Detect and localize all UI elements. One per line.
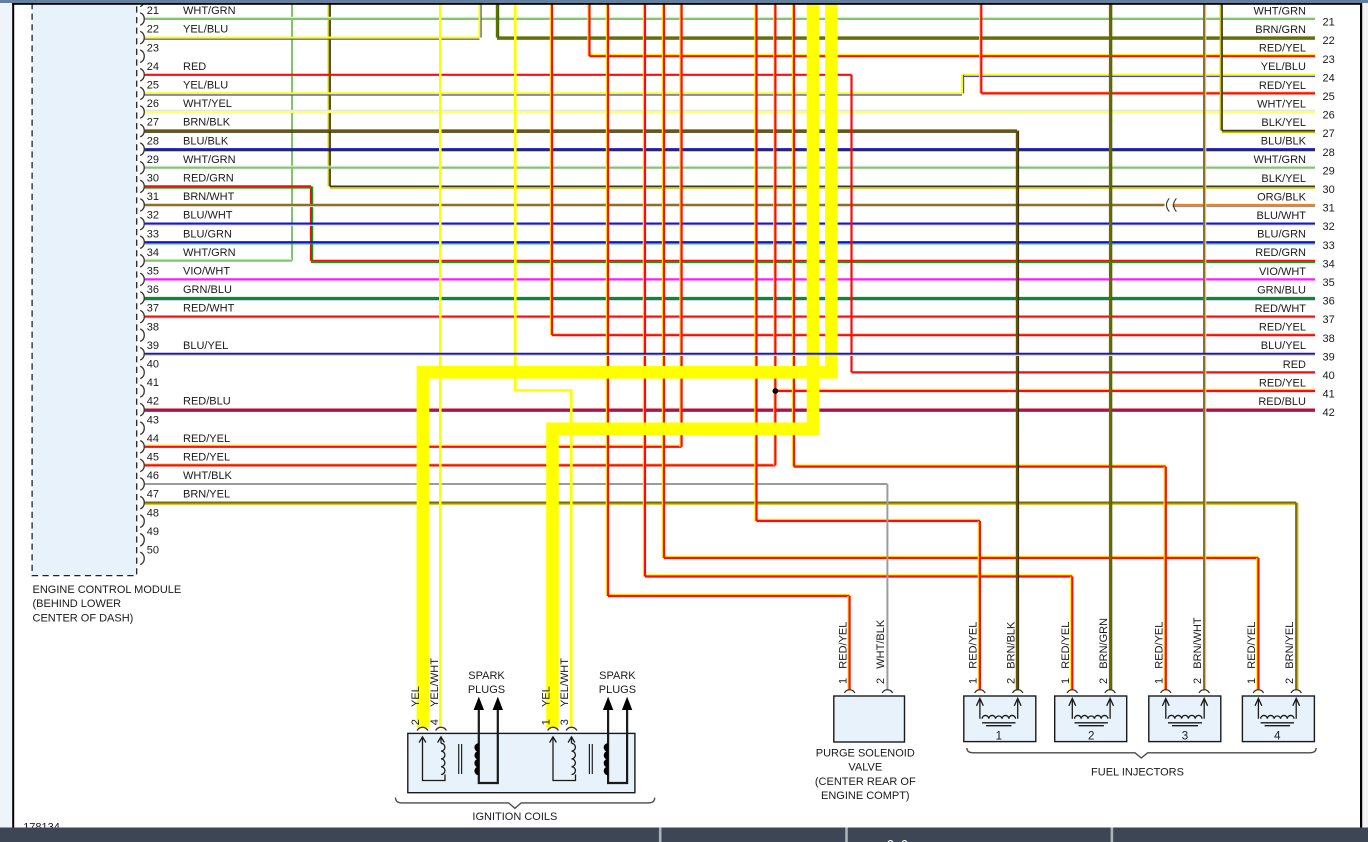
svg-text:RED/WHT: RED/WHT [1255,303,1307,315]
wire BRN/GRN (right row 22) [497,38,1315,40]
left gutter [0,0,12,842]
wire drop RED/YEL (purge valve pin 1) [848,596,850,690]
wire 25 YEL/BLU (ECM pin 25 to jog) [145,93,962,95]
svg-text:26: 26 [1323,110,1335,122]
svg-text:(CENTER REAR OF: (CENTER REAR OF [815,776,916,788]
svg-text:RED/YEL: RED/YEL [1259,80,1306,92]
purge valve pin 1 arc [844,690,854,693]
svg-text:ENGINE COMPT): ENGINE COMPT) [821,790,910,802]
svg-text:PLUGS: PLUGS [468,684,505,696]
ECM pin 23 connector arc [140,50,144,63]
ignition coil pin 1 arc [548,727,559,730]
fuel injector 1 coil symbol [977,698,1022,725]
wire riser RED/YEL (pin 44 up to top) [680,4,682,447]
svg-text:26: 26 [147,98,159,110]
svg-text:4 YEL/WHT: 4 YEL/WHT [429,658,441,726]
svg-text:WHT/GRN: WHT/GRN [1253,154,1306,166]
svg-text:1 RED/YEL: 1 RED/YEL [837,622,849,684]
diagram right border [1360,3,1362,828]
svg-text:2 BRN/YEL: 2 BRN/YEL [1284,622,1296,684]
svg-text:44: 44 [147,433,159,445]
svg-text:39: 39 [1323,351,1335,363]
svg-text:6: 6 [887,837,895,842]
ECM pin 22 connector arc [140,31,144,44]
wire 26 WHT/YEL [145,110,1315,112]
svg-text:36: 36 [1323,296,1335,308]
fuel injector 3 box [1149,696,1221,742]
svg-text:38: 38 [147,321,159,333]
purge solenoid valve caption [815,748,916,802]
wire 39 BLU/YEL (drawn over thick yellow) [145,354,1315,356]
ECM pin 37 connector arc [140,310,144,323]
ignition coil pin 2 arc [417,727,428,730]
svg-text:VIO/WHT: VIO/WHT [1259,266,1306,278]
wire 37 RED/WHT [145,317,1315,319]
svg-text:4: 4 [1274,731,1281,743]
fuel injector 2 pin 1 arc [1067,690,1077,693]
ECM pin 25 connector arc [140,87,144,100]
svg-text:(BEHIND LOWER: (BEHIND LOWER [33,598,122,610]
svg-text:2 YEL: 2 YEL [410,686,422,725]
ECM pin 29 connector arc [140,162,144,175]
spark plugs label 1 [468,670,506,696]
svg-text:WHT/YEL: WHT/YEL [1257,98,1306,110]
ECM pin 32 connector arc [140,217,144,230]
wire riser WHT/GRN (pin 34 up to top) [291,4,293,261]
svg-text:31: 31 [147,191,159,203]
svg-text:1 RED/YEL: 1 RED/YEL [1060,622,1072,684]
status bar separator 3 [1111,828,1114,842]
ECM pin 48 connector arc [140,515,144,528]
ECM pin 39 connector arc [140,348,144,361]
fuel injector 3 pin 1 arc [1161,690,1171,693]
ECM pin 26 connector arc [140,106,144,119]
ECM pin 21 connector arc [140,13,144,26]
svg-text:28: 28 [147,135,159,147]
wire riser RED/YEL (top down to injector 4 feed) [662,4,664,558]
svg-text:31: 31 [1323,203,1335,215]
fuel injector 2 coil symbol [1069,698,1114,725]
svg-text:BRN/BLK: BRN/BLK [183,117,231,129]
svg-text:28: 28 [1323,147,1335,159]
svg-text:42: 42 [1323,407,1335,419]
svg-text:BLU/WHT: BLU/WHT [183,210,233,222]
svg-text:29: 29 [1323,165,1335,177]
svg-text:3: 3 [1182,731,1188,743]
svg-text:3 YEL/WHT: 3 YEL/WHT [559,658,571,726]
svg-text:BLU/BLK: BLU/BLK [1261,136,1307,148]
svg-text:35: 35 [1323,277,1335,289]
wire ORG/BLK (right row 31) [1173,205,1316,207]
ECM pin 42 connector arc [140,403,144,416]
svg-text:41: 41 [1323,389,1335,401]
svg-text:24: 24 [147,61,159,73]
svg-text:27: 27 [147,117,159,129]
diagram left border [12,3,14,828]
wire drop BRN/WHT (top down to injector 3 pin 2) [1204,4,1206,690]
wire BLK/YEL (right row 30) [330,186,1315,188]
svg-text:BRN/WHT: BRN/WHT [183,191,235,203]
svg-text:RED/WHT: RED/WHT [183,303,235,315]
wire riser RED/YEL (top down to row 23) [588,4,590,56]
svg-text:GRN/BLU: GRN/BLU [1257,284,1306,296]
fuel injector 4 pin 1 arc [1253,690,1263,693]
wire RED (right row 40) [852,371,1316,373]
wire RED/YEL feed to injector 3 pin 1 [794,465,1166,467]
fuel injector 4 coil symbol [1255,698,1300,725]
svg-text:RED: RED [1283,359,1306,371]
wire drop RED/YEL (injector 2 pin 1) [1071,577,1073,691]
wire drop RED/GRN (row 30 down to row 34) [311,186,313,260]
wire riser BLK/YEL (top down to row 30) [328,4,330,186]
fuel injector 1 box [964,696,1036,742]
status bar separator 2 [845,828,848,842]
svg-text:SPARK: SPARK [468,670,505,682]
svg-text:1 RED/YEL: 1 RED/YEL [1246,622,1258,684]
thin YEL/WHT wire to ignition coil pin 4 [439,4,442,727]
wire RED/GRN (right row 34) [311,261,1315,263]
svg-text:22: 22 [1323,35,1335,47]
wire drop WHT/BLK (row 46 down to purge valve pin 2) [886,484,888,690]
svg-text:40: 40 [147,359,159,371]
junction dot on wire row 41 [773,388,779,394]
svg-text:35: 35 [147,266,159,278]
wire 33 BLU/GRN [145,242,1315,244]
ECM pin 41 connector arc [140,385,144,398]
svg-text:34: 34 [147,247,159,259]
purge valve pin 2 arc [882,690,892,693]
svg-text:21: 21 [1323,17,1335,29]
wire 34 WHT/GRN (ECM pin 34 to riser) [145,259,292,261]
svg-text:RED/YEL: RED/YEL [1259,43,1306,55]
wire riser RED/YEL (top down to row 25) [980,4,982,93]
wire 42 RED/BLU [145,410,1315,412]
svg-text:23: 23 [1323,54,1335,66]
svg-text:SPARK: SPARK [599,670,636,682]
svg-text:40: 40 [1323,370,1335,382]
svg-text:23: 23 [147,42,159,54]
fuel injector 2 box [1055,696,1127,742]
top window bar [0,0,1368,3]
wire drop RED (row 24 down to row 40) [850,75,852,373]
ignition coils brace [396,798,655,809]
ECM pin 45 connector arc [140,459,144,472]
spark plugs label 2 [599,670,637,696]
ECM pin 33 connector arc [140,236,144,249]
wire drop BRN/GRN (top down to injector 2 pin 2) [1110,4,1112,690]
svg-text:38: 38 [1323,333,1335,345]
wire riser YEL/BLU (pin 22 up to top) [480,4,482,38]
wire 45 RED/YEL (ECM pin 45 to riser) [145,464,776,466]
svg-text:BLU/GRN: BLU/GRN [183,228,232,240]
wire 29 WHT/GRN [145,166,1315,168]
svg-text:1 RED/YEL: 1 RED/YEL [968,622,980,684]
svg-text:BRN/YEL: BRN/YEL [183,489,230,501]
svg-text:WHT/GRN: WHT/GRN [1253,5,1306,17]
ECM pin 38 connector arc [140,329,144,342]
svg-text:46: 46 [147,470,159,482]
ECM pin 35 connector arc [140,273,144,286]
engine control module box (dashed, light blue) [32,3,137,576]
ECM pin 44 connector arc [140,441,144,454]
wire riser RED/YEL (top down to injector 3 feed) [792,4,794,467]
fuel injector 3 coil symbol [1162,698,1207,725]
svg-text:30: 30 [1323,184,1335,196]
svg-text:PLUGS: PLUGS [599,684,636,696]
svg-text:2 BRN/WHT: 2 BRN/WHT [1192,617,1204,684]
svg-text:ORG/BLK: ORG/BLK [1257,191,1307,203]
svg-text:30: 30 [147,173,159,185]
purge solenoid valve box [834,696,905,742]
svg-text:33: 33 [147,228,159,240]
svg-text:RED/BLU: RED/BLU [1258,396,1306,408]
right gutter [1362,0,1368,842]
fuel injector 4 box [1242,696,1314,742]
wire drop RED/YEL (injector 1 pin 1) [978,521,980,690]
svg-text:PURGE SOLENOID: PURGE SOLENOID [816,748,915,760]
ignition coils box [408,733,635,792]
wire RED/YEL feed to injector 4 pin 1 [664,556,1258,558]
svg-text:BRN/GRN: BRN/GRN [1255,24,1306,36]
wire drop BRN/YEL (row 47 down to injector 4 pin 2) [1296,503,1298,690]
svg-text:2 BRN/BLK: 2 BRN/BLK [1005,621,1017,684]
ECM pin 27 connector arc [140,124,144,137]
svg-text:1 YEL: 1 YEL [541,686,553,725]
svg-text:RED/GRN: RED/GRN [183,173,234,185]
wire 44 RED/YEL (ECM pin 44 to riser) [145,445,682,447]
svg-text:WHT/BLK: WHT/BLK [183,470,233,482]
svg-text:CENTER OF DASH): CENTER OF DASH) [33,612,134,624]
wire 24 RED (ECM pin 24 to drop) [145,74,852,76]
svg-text:33: 33 [1323,240,1335,252]
svg-text:RED/BLU: RED/BLU [183,396,231,408]
ECM pin 49 connector arc [140,534,144,547]
fuel injectors brace [967,748,1316,758]
svg-text:BLU/BLK: BLU/BLK [183,135,229,147]
ignition coil unit 1 (cyl 2/4) with spark plug leads [419,697,503,783]
svg-text:6: 6 [901,837,909,842]
svg-text:BLU/YEL: BLU/YEL [183,340,228,352]
wire 32 BLU/WHT [145,224,1315,226]
wire riser RED/YEL (top down to row 38) [550,4,552,335]
svg-text:YEL/BLU: YEL/BLU [183,24,228,36]
ignition coil unit 2 (cyl 1/3) with spark plug leads [550,697,633,783]
wire drop BRN/BLK (row 27 down to injector 1 pin 2) [1017,131,1019,690]
fuel injector 4 pin 2 arc [1291,690,1301,693]
svg-text:25: 25 [1323,91,1335,103]
wire RED/YEL (right row 38) [552,334,1315,336]
svg-text:50: 50 [147,545,159,557]
svg-text:39: 39 [147,340,159,352]
wire 28 BLU/BLK [145,149,1315,151]
svg-text:25: 25 [147,80,159,92]
ECM pin 24 connector arc [140,69,144,82]
ECM pin 40 connector arc [140,366,144,379]
svg-text:BLU/YEL: BLU/YEL [1261,340,1306,352]
svg-text:2 BRN/GRN: 2 BRN/GRN [1098,618,1110,684]
ECM pin 47 connector arc [140,496,144,509]
ECM pin 34 connector arc [140,255,144,268]
fuel injector 1 pin 1 arc [975,690,985,693]
svg-text:WHT/GRN: WHT/GRN [183,154,236,166]
svg-text:1: 1 [996,731,1002,743]
svg-text:36: 36 [147,284,159,296]
ECM pin 50 connector arc [140,552,144,565]
svg-text:32: 32 [1323,221,1335,233]
svg-text:45: 45 [147,452,159,464]
wire drop RED/YEL (injector 3 pin 1) [1164,467,1166,690]
svg-text:BLU/GRN: BLU/GRN [1257,229,1306,241]
wire jog YEL/BLU (row 25 up to row 24) [962,75,964,94]
wire riser RED/YEL (top down to injector 2 feed) [643,4,645,577]
wire 46 WHT/BLK (ECM pin 46 to purge valve drop) [145,483,888,485]
svg-text:27: 27 [1323,128,1335,140]
svg-text:WHT/GRN: WHT/GRN [183,247,236,259]
engine control module caption [33,584,182,624]
svg-text:WHT/GRN: WHT/GRN [183,5,236,17]
ECM pin 30 connector arc [140,180,144,193]
svg-text:21: 21 [147,5,159,17]
svg-text:48: 48 [147,507,159,519]
wire 36 GRN/BLU [145,298,1315,300]
svg-text:37: 37 [147,303,159,315]
fuel injector 3 pin 2 arc [1199,690,1209,693]
svg-text:1 RED/YEL: 1 RED/YEL [1154,622,1166,684]
svg-text:RED/YEL: RED/YEL [183,452,230,464]
svg-text:BLK/YEL: BLK/YEL [1261,173,1306,185]
svg-text:2 WHT/BLK: 2 WHT/BLK [875,619,887,684]
svg-text:41: 41 [147,377,159,389]
wire riser BRN/GRN (top down to row 22) [497,4,499,38]
status bar separator 1 [659,828,662,842]
fuel injector 2 pin 2 arc [1105,690,1115,693]
thin YEL/WHT wire to ignition coil pin 3 (with jog) [515,4,571,727]
wire riser RED/YEL (pin 45 / row 41 up to top) [774,4,776,465]
ignition coil pin 4 arc [436,727,447,730]
wire 30 RED/GRN (ECM pin 30 to drop) [145,186,311,188]
svg-text:49: 49 [147,526,159,538]
clipped status bar text [887,837,909,842]
svg-text:BLU/WHT: BLU/WHT [1257,210,1307,222]
svg-text:YEL/BLU: YEL/BLU [183,80,228,92]
svg-text:34: 34 [1323,258,1335,270]
svg-text:2: 2 [1088,731,1094,743]
ECM pin 31 connector arc [140,199,144,212]
ignition coil pin 3 arc [566,727,577,730]
bottom status bar [0,828,1368,842]
svg-text:VIO/WHT: VIO/WHT [183,266,230,278]
thick YEL wire to ignition coil pin 2 (highlighted path A) [423,4,832,728]
svg-text:BLK/YEL: BLK/YEL [1261,117,1306,129]
wire RED/YEL (right row 23) [590,55,1316,57]
wire 21 WHT/GRN (ECM pin 21 to right edge) [145,17,1315,19]
ECM pin 36 connector arc [140,292,144,305]
svg-text:43: 43 [147,414,159,426]
wire drop RED/YEL (injector 4 pin 1) [1257,558,1259,690]
wire 27 BRN/BLK (ECM pin 27 to injector 1 drop) [145,131,1017,133]
wire RED/YEL (right row 25) [981,92,1315,94]
wire RED/YEL feed to injector 2 pin 1 [645,575,1072,577]
wire 22 YEL/BLU (ECM pin 22 to vertical riser) [145,38,480,40]
svg-text:42: 42 [147,396,159,408]
svg-text:22: 22 [147,24,159,36]
svg-text:RED/YEL: RED/YEL [1259,322,1306,334]
svg-text:32: 32 [147,210,159,222]
wire riser BLK/YEL (top down to row 27) [1220,4,1222,131]
svg-text:RED/YEL: RED/YEL [1259,377,1306,389]
svg-text:24: 24 [1323,72,1335,84]
ECM pin 28 connector arc [140,143,144,156]
svg-text:29: 29 [147,154,159,166]
svg-text:YEL/BLU: YEL/BLU [1261,61,1306,73]
svg-text:RED: RED [183,61,206,73]
svg-text:VALVE: VALVE [848,762,882,774]
wire BLK/YEL (right row 27) [1222,131,1315,133]
svg-text:WHT/YEL: WHT/YEL [183,98,232,110]
wire RED/YEL feed to injector 1 pin 1 [757,519,980,521]
svg-text:FUEL INJECTORS: FUEL INJECTORS [1091,766,1184,778]
wire YEL/BLU (right row 24 after jog) [962,75,1315,77]
ECM pin 20 connector arc [140,0,144,7]
svg-text:ENGINE CONTROL MODULE: ENGINE CONTROL MODULE [33,584,182,596]
wire RED/YEL feed to purge valve pin 1 [608,594,850,596]
svg-text:RED/YEL: RED/YEL [183,433,230,445]
wire 47 BRN/YEL (ECM pin 47 to injector 4 drop) [145,503,1297,505]
wire 35 VIO/WHT [145,278,1315,280]
thick YEL wire to ignition coil pin 1 (highlighted path B) [553,4,814,728]
wire RED/YEL (right row 41) [775,389,1315,391]
wire riser RED/YEL (top down to purge feed) [606,4,608,596]
wire 31 BRN/WHT (ECM pin 31 to splice) [145,205,1165,207]
ECM pin 43 connector arc [140,422,144,435]
svg-text:GRN/BLU: GRN/BLU [183,284,232,296]
diagram top border [12,3,1362,5]
svg-text:RED/GRN: RED/GRN [1255,247,1306,259]
ECM pin 46 connector arc [140,478,144,491]
svg-text:IGNITION COILS: IGNITION COILS [472,811,557,823]
wire riser RED/YEL (top down to injector 1 feed) [755,4,757,521]
svg-text:47: 47 [147,489,159,501]
svg-text:37: 37 [1323,314,1335,326]
splice break symbol on wire row 31 [1166,198,1176,211]
fuel injector 1 pin 2 arc [1013,690,1023,693]
